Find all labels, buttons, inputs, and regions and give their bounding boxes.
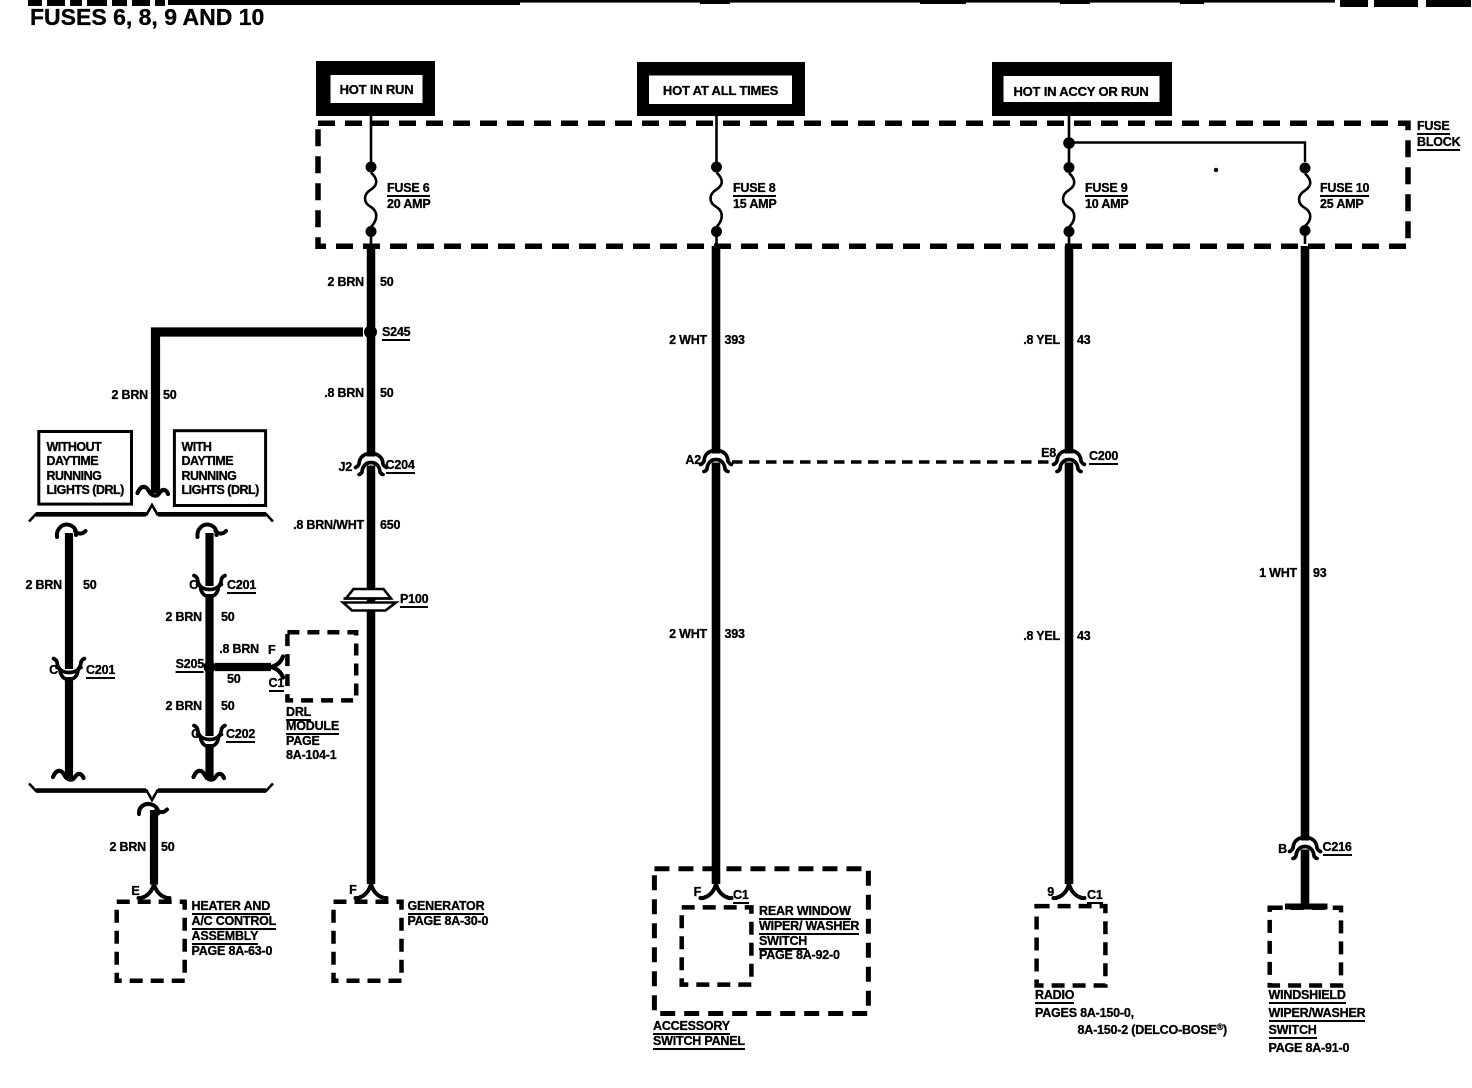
fuse F8 element [711, 173, 722, 228]
grommet P100 name [400, 593, 428, 608]
node fuse 10 top [1300, 163, 1311, 174]
wire fuse 10 bottom stub [1304, 236, 1307, 245]
option bracket lower [29, 784, 273, 801]
component label GENERATOR line 1 [408, 900, 485, 915]
wire label circuit 393 upper [725, 334, 745, 347]
panel label ACCESSORY line 2 [653, 1035, 745, 1050]
fuse block name line 2 [1417, 136, 1460, 151]
connector half start of heater feed wire [139, 804, 167, 814]
node fuse 9 top [1064, 162, 1075, 173]
connector A2 [701, 451, 732, 472]
connector half end of WITH branch [194, 771, 225, 780]
connector C204 [356, 454, 387, 475]
wire label circuit 50 with-DRL lower [221, 700, 235, 713]
wire stub from HOT IN RUN [370, 116, 373, 126]
pin E heater [131, 885, 139, 898]
connector C1 name DRL [269, 677, 285, 692]
pin E fork into heater box [139, 884, 170, 898]
power label HOT IN ACCY OR RUN [1013, 85, 1148, 98]
box REAR WINDOW WIPER WASHER SWITCH dashed [682, 907, 752, 984]
fuse 8 rating [733, 198, 777, 211]
page title [30, 5, 264, 29]
pin F of DRL module [268, 644, 275, 657]
pin F fork into rear window switch [701, 884, 732, 898]
node fuse 6 top [366, 162, 377, 173]
wire label circuit 50 [380, 276, 394, 289]
power label HOT IN RUN [340, 83, 414, 96]
connector C201 name with-DRL [227, 579, 256, 594]
connector C202 [194, 726, 225, 747]
power label HOT AT ALL TIMES [663, 84, 778, 97]
box WITHOUT DAYTIME RUNNING LIGHTS [39, 432, 132, 505]
terminal bar at windshield switch [1285, 904, 1328, 910]
pin B windshield switch [1278, 843, 1287, 856]
wire fuse 6 bottom stub [370, 237, 373, 245]
connector half end of branch wire [138, 487, 169, 496]
wire 2 BRN 50 generator feed lower [367, 466, 376, 885]
component label HEATER line 4 [192, 945, 273, 958]
splice S205 name [176, 658, 204, 673]
wire label 2 WHT upper [669, 334, 707, 347]
module label DRL line 1 [286, 706, 311, 721]
splice S205 [204, 661, 216, 673]
wire label .8 BRN [324, 387, 364, 400]
node fuse 6 bottom [366, 226, 377, 237]
power source box HOT AT ALL TIMES [637, 62, 805, 116]
fuse F6 element [365, 173, 376, 228]
wire label .8 BRN/WHT [293, 519, 364, 532]
pin F fork into DRL module [271, 657, 283, 678]
box WINDSHIELD WIPER WASHER SWITCH dashed [1270, 908, 1341, 986]
wire label circuit 50 heater feed [161, 841, 175, 854]
wire label circuit 43 upper [1077, 334, 1091, 347]
wire label .8 YEL upper [1023, 334, 1060, 347]
module label DRL line 4 [286, 749, 337, 762]
wire .8 YEL 43 lower [1065, 463, 1074, 885]
wire 2 WHT 393 lower [712, 463, 721, 885]
wire label 1 WHT [1259, 567, 1297, 580]
connector half start of WITHOUT branch wire [57, 525, 86, 537]
wire WITH branch middle [205, 594, 213, 736]
wire label circuit 50 to DRL [227, 673, 241, 686]
wire 1 WHT 93 upper [1301, 246, 1310, 841]
wire 2 WHT 393 upper [712, 246, 721, 454]
node junction to fuse 10 [1063, 137, 1075, 149]
wire label circuit 393 lower [725, 628, 745, 641]
component label REAR WINDOW line 1 [759, 905, 851, 920]
component label WINDSHIELD line 2 [1269, 1007, 1366, 1022]
connector C202 name [226, 728, 255, 743]
box ACCESSORY SWITCH PANEL dashed [654, 869, 868, 1014]
stray mark [1214, 168, 1218, 172]
fuse 10 rating [1320, 198, 1364, 211]
wire WITHOUT branch lower [65, 677, 73, 780]
wire WITHOUT branch upper [65, 533, 73, 669]
connector half start of WITH branch wire [197, 525, 226, 537]
connector C201 (without DRL) [54, 659, 85, 680]
wire WITH branch upper [205, 533, 213, 586]
wire label circuit 50 [380, 387, 394, 400]
connector C201 (with DRL) [194, 576, 225, 597]
pin F generator [349, 884, 356, 897]
connector C201 name without-DRL [86, 664, 115, 679]
component label WINDSHIELD line 3 [1269, 1024, 1317, 1039]
wire label circuit 650 [380, 519, 400, 532]
pin C of C201 without-DRL [49, 664, 58, 677]
component label RADIO line 3 [1078, 1021, 1228, 1037]
option label WITH line 4 [182, 484, 259, 497]
component label RADIO line 2 [1035, 1007, 1134, 1020]
connector half end of WITHOUT branch [53, 771, 84, 780]
node fuse 8 bottom [711, 226, 722, 237]
box HEATER AND A/C CONTROL ASSEMBLY dashed [117, 902, 185, 981]
wire 2 BRN 50 fuse6 feed upper [367, 246, 376, 457]
box WITH DAYTIME RUNNING LIGHTS [174, 431, 265, 506]
wire label circuit 93 [1313, 567, 1327, 580]
option bracket upper [29, 505, 273, 522]
option label WITH line 1 [182, 441, 212, 454]
fuse F10 element [1299, 174, 1310, 227]
option label WITH line 2 [182, 455, 234, 468]
component label REAR WINDOW line 3 [759, 935, 807, 950]
pin E8 [1041, 447, 1056, 460]
wire .8 BRN 50 to DRL module [215, 663, 271, 671]
node fuse 10 bottom [1300, 225, 1311, 236]
wire WITH branch lower [205, 744, 213, 780]
cropped header rule [28, 0, 1471, 7]
wire fuse 8 bottom stub [715, 237, 718, 245]
wire label 2 BRN with-DRL lower [165, 700, 202, 713]
wire label circuit 50 without-DRL [83, 579, 97, 592]
pin F rear window switch [694, 886, 701, 899]
wire fuse 8 top [715, 126, 718, 162]
connector C1 name rear window [733, 889, 749, 904]
wire fuse 9 top [1068, 126, 1071, 138]
pin J2 [338, 461, 352, 474]
box DRL MODULE dashed [287, 632, 356, 700]
wire 1 WHT 93 lower [1301, 850, 1310, 905]
wire fuse 6 top [370, 126, 373, 162]
fuse 9 name [1085, 182, 1128, 197]
wire junction to fuse 9 [1068, 148, 1071, 162]
wire label .8 BRN to DRL [219, 643, 259, 656]
box GENERATOR dashed [334, 902, 402, 981]
module label DRL line 3 [286, 735, 320, 748]
pin 9 fork into radio [1054, 884, 1085, 898]
grommet P100 [343, 589, 396, 611]
splice S245 name [382, 326, 410, 341]
wire label 2 BRN [327, 276, 364, 289]
option label WITHOUT line 3 [47, 470, 102, 483]
pin C of C201 with-DRL [189, 579, 198, 592]
connector C1 name radio [1087, 889, 1103, 904]
node fuse 8 top [711, 162, 722, 173]
connector C216 name [1323, 841, 1352, 856]
option label WITHOUT line 1 [47, 441, 102, 454]
component label GENERATOR line 2 [408, 915, 489, 928]
fuse block dashed border [318, 123, 1408, 246]
wire .8 YEL 43 upper [1065, 246, 1074, 454]
wire fuse 9 bottom stub [1068, 237, 1071, 245]
pin C of C202 [191, 728, 200, 741]
panel label ACCESSORY line 1 [653, 1020, 730, 1035]
splice S245 [364, 326, 377, 339]
component label HEATER line 1 [192, 900, 271, 915]
component label WINDSHIELD line 1 [1269, 989, 1346, 1004]
pin F fork into generator box [356, 884, 387, 898]
wire 2 BRN 50 heater feed [150, 810, 158, 885]
connector C216 pin B [1290, 838, 1321, 859]
wire label 2 BRN with-DRL upper [165, 611, 202, 624]
component label HEATER line 2 [192, 915, 277, 930]
option label WITH line 3 [182, 470, 237, 483]
component label HEATER line 3 [192, 930, 259, 945]
connector C200 pin E8 [1054, 451, 1085, 472]
component label RADIO line 1 [1035, 989, 1074, 1004]
fuse 6 name [387, 182, 430, 197]
wire label 2 BRN heater feed [109, 841, 146, 854]
component label REAR WINDOW line 4 [759, 949, 840, 962]
option label WITHOUT line 4 [47, 484, 124, 497]
wire label circuit 43 lower [1077, 630, 1091, 643]
connector C204 name [386, 459, 415, 474]
fuse 6 rating [387, 198, 431, 211]
dashed interconnect wire A2 to E8 [732, 460, 1053, 463]
box RADIO dashed [1037, 906, 1106, 985]
module label DRL line 2 [286, 720, 339, 735]
fuse F9 element [1063, 173, 1074, 227]
fuse 9 rating [1085, 198, 1129, 211]
wire fuse 9 junction to fuse 10 [1074, 143, 1305, 163]
pin A2 [685, 454, 701, 467]
wire label 2 WHT lower [669, 628, 707, 641]
component label WINDSHIELD line 4 [1269, 1042, 1350, 1055]
wire label 2 BRN branch [111, 389, 148, 402]
power source box HOT IN RUN [316, 61, 435, 116]
wire label 2 BRN without-DRL [25, 579, 62, 592]
power source box HOT IN ACCY OR RUN [992, 62, 1172, 116]
node fuse 9 bottom [1064, 226, 1075, 237]
wire label circuit 50 with-DRL upper [221, 611, 235, 624]
wire 2 BRN 50 branch to DRL splice [156, 332, 364, 493]
fuse block name line 1 [1417, 120, 1450, 135]
connector C200 name [1089, 450, 1118, 465]
wire stub from HOT IN ACCY OR RUN [1068, 116, 1071, 126]
option label WITHOUT line 2 [47, 455, 99, 468]
fuse 8 name [733, 182, 776, 197]
component label REAR WINDOW line 2 [759, 920, 859, 935]
wire label .8 YEL lower [1023, 630, 1060, 643]
wire stub from HOT AT ALL TIMES [715, 116, 718, 126]
fuse 10 name [1320, 182, 1369, 197]
wire label circuit 50 branch [163, 389, 177, 402]
pin 9 radio [1047, 886, 1054, 899]
